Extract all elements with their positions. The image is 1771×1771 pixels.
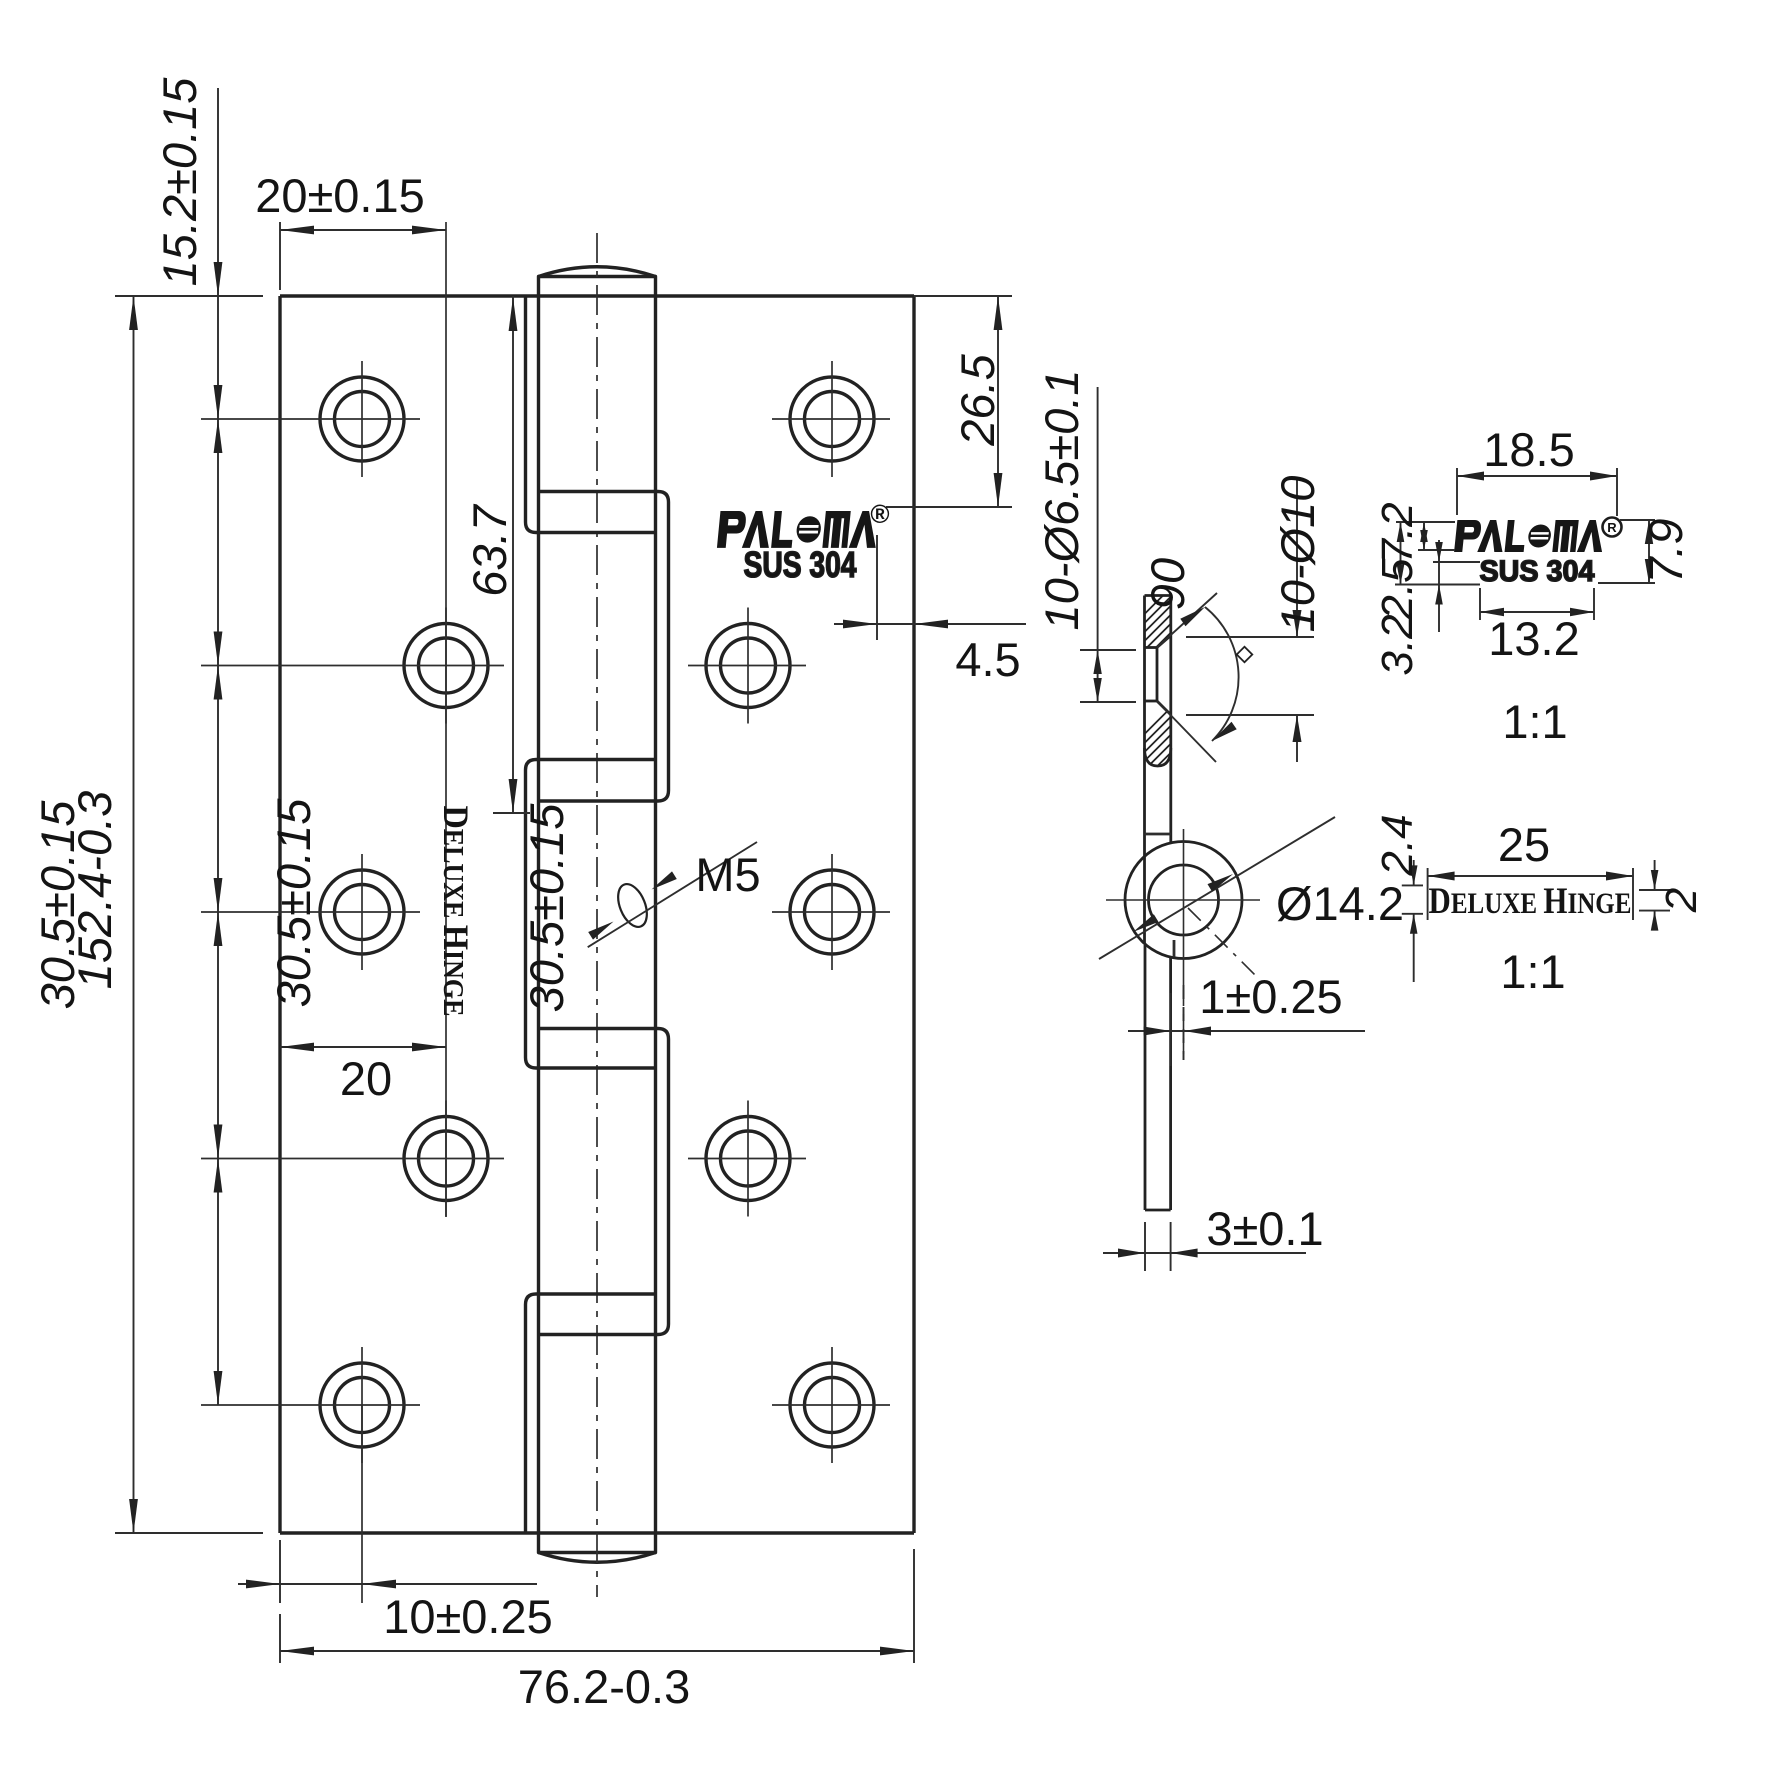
detail1 dimension 18.5 bbox=[1457, 468, 1617, 516]
knuckle crosshair bbox=[1106, 829, 1260, 1060]
degree diamond bbox=[1237, 647, 1253, 663]
svg-text:10-Ø6.5±0.1: 10-Ø6.5±0.1 bbox=[1035, 370, 1088, 631]
label 10-Ø6.5±0.1 bbox=[1035, 370, 1088, 631]
PALOMA SUS 304 stamp front bbox=[717, 499, 890, 585]
hinge plate outline front view bbox=[280, 296, 914, 1533]
detail2 label 1:1 bbox=[1500, 945, 1565, 998]
side strip top cap bbox=[1145, 594, 1171, 597]
hatch zone 2 bbox=[1109, 700, 1296, 770]
dimension 63.7 bbox=[493, 296, 530, 813]
pin left edge bbox=[537, 296, 540, 1533]
svg-text:DELUXE HINGE: DELUXE HINGE bbox=[1429, 881, 1632, 922]
screw hole H10 with crosshair bbox=[772, 1347, 890, 1463]
hatch zone 1 bbox=[1109, 594, 1282, 650]
M5 oil hole callout bbox=[588, 842, 757, 947]
DELUXE HINGE stamp front bbox=[436, 806, 476, 1017]
knuckle sleeve 2 outline bbox=[526, 1029, 669, 1335]
svg-text:10-Ø10: 10-Ø10 bbox=[1271, 476, 1324, 633]
svg-text:10±0.25: 10±0.25 bbox=[383, 1590, 553, 1643]
label 10±0.25 bbox=[383, 1590, 553, 1643]
screw hole H9 with crosshair bbox=[688, 1101, 806, 1217]
svg-text:15.2±0.15: 15.2±0.15 bbox=[153, 77, 206, 287]
label 1±0.25 bbox=[1199, 970, 1342, 1023]
detail1 PALOMA stamp bbox=[1454, 518, 1621, 589]
svg-text:30.5±0.15: 30.5±0.15 bbox=[267, 798, 320, 1008]
svg-text:3±0.1: 3±0.1 bbox=[1206, 1202, 1323, 1255]
detail2 dimension 2.4 bbox=[1402, 860, 1423, 982]
screw hole H3 with crosshair bbox=[201, 854, 420, 970]
dimension 20±0.15 top bbox=[280, 222, 446, 290]
label M5 bbox=[695, 848, 760, 901]
dimension chain 15.2/30.5 line bbox=[214, 88, 223, 1405]
svg-text:M5: M5 bbox=[695, 848, 760, 901]
svg-text:18.5: 18.5 bbox=[1483, 423, 1574, 476]
svg-text:SUS 304: SUS 304 bbox=[744, 544, 857, 585]
label 152.4-0.3 far left bbox=[68, 791, 121, 990]
svg-text:®: ® bbox=[870, 499, 889, 529]
label 63.7 bbox=[463, 503, 516, 596]
detail1 label 7.9 bbox=[1639, 518, 1692, 583]
pin cap bottom with dome bbox=[539, 1533, 656, 1562]
side lower strip bbox=[1145, 945, 1171, 1210]
screw hole H1 with crosshair bbox=[201, 361, 420, 477]
svg-text:2.5: 2.5 bbox=[1373, 558, 1422, 621]
svg-text:90: 90 bbox=[1141, 558, 1194, 610]
svg-text:26.5: 26.5 bbox=[951, 353, 1004, 446]
side strip right edge upper bbox=[1169, 596, 1172, 844]
dimension 76.2-0.3 bbox=[280, 1549, 914, 1663]
dimension 10-O10 bbox=[1186, 480, 1314, 762]
svg-text:13.2: 13.2 bbox=[1488, 612, 1579, 665]
curl gap line bbox=[1173, 940, 1176, 957]
screw hole H7 with crosshair bbox=[688, 608, 806, 724]
svg-text:SUS 304: SUS 304 bbox=[1480, 555, 1595, 588]
detail1 label 3.2 bbox=[1373, 614, 1422, 675]
svg-text:3.2: 3.2 bbox=[1373, 614, 1422, 675]
svg-text:7.9: 7.9 bbox=[1639, 518, 1692, 583]
detail1 dims 3.2/2.5/7.2 bbox=[1395, 522, 1480, 632]
label 3±0.1 bbox=[1206, 1202, 1323, 1255]
chamfer extension lower bbox=[1157, 701, 1216, 762]
left leaf inner edge top bbox=[524, 296, 527, 522]
detail2 DELUXE HINGE stamp bbox=[1429, 881, 1632, 922]
label 30.5±0.15 far left bbox=[31, 800, 84, 1010]
label 15.2±0.15 bbox=[153, 77, 206, 287]
screw hole H8 with crosshair bbox=[772, 854, 890, 970]
svg-text:1:1: 1:1 bbox=[1500, 945, 1565, 998]
label Ø14.2 bbox=[1276, 877, 1404, 930]
dimension 10-O6.5 bbox=[1080, 387, 1136, 702]
dimension 1±0.25 bbox=[1128, 985, 1365, 1066]
dimension 26.5 bbox=[886, 296, 1012, 507]
plate top extension left bbox=[115, 295, 263, 297]
detail1 label 2.5 bbox=[1373, 558, 1422, 621]
detail1 label 13.2 bbox=[1488, 612, 1579, 665]
knuckle outer circle bbox=[1125, 842, 1242, 959]
svg-text:63.7: 63.7 bbox=[463, 503, 516, 596]
chamfer extension upper bbox=[1157, 593, 1217, 648]
detail2 label 2 bbox=[1657, 888, 1706, 913]
dimension 3±0.1 bbox=[1103, 1222, 1306, 1271]
left leaf inner edge middle bbox=[524, 770, 527, 1058]
screw hole H2 with crosshair bbox=[201, 608, 504, 724]
dimension 152.4 overall line bbox=[129, 296, 138, 1533]
knuckle sleeve 1 outline bbox=[526, 492, 669, 802]
knuckle inner circle bbox=[1149, 865, 1219, 935]
svg-text:20: 20 bbox=[340, 1052, 392, 1105]
screw hole H5 with crosshair bbox=[201, 1347, 420, 1463]
detail2 label 2.4 bbox=[1373, 814, 1422, 876]
countersunk hole section bbox=[1145, 636, 1171, 715]
detail1 dimension 13.2 bbox=[1480, 588, 1594, 620]
detail2 dimension 2 bbox=[1639, 860, 1670, 931]
svg-text:2.4: 2.4 bbox=[1373, 814, 1422, 876]
plate bottom extension left bbox=[115, 1532, 263, 1534]
dimension 10±0.25 bbox=[238, 1540, 537, 1603]
section plane dash bbox=[1188, 908, 1255, 975]
svg-text:76.2-0.3: 76.2-0.3 bbox=[518, 1660, 690, 1713]
pin right edge bbox=[654, 296, 657, 1533]
svg-text:2: 2 bbox=[1657, 888, 1706, 913]
pin cap top with dome bbox=[539, 267, 656, 296]
svg-text:R: R bbox=[1607, 520, 1617, 535]
dimension 20 middle bbox=[280, 1043, 446, 1052]
detail1 dimension 7.9 bbox=[1598, 520, 1655, 583]
O14.2 leader bbox=[1099, 817, 1335, 959]
label 76.2-0.3 bbox=[518, 1660, 690, 1713]
label 20 bbox=[340, 1052, 392, 1105]
svg-text:1:1: 1:1 bbox=[1502, 695, 1567, 748]
label 26.5 bbox=[951, 353, 1004, 446]
detail2 dimension 25 bbox=[1428, 868, 1633, 920]
label 30.5±0.15 chain bbox=[267, 798, 320, 1008]
dimension 4.5 bbox=[834, 535, 1026, 640]
svg-text:Ø14.2: Ø14.2 bbox=[1276, 877, 1404, 930]
svg-text:7.2: 7.2 bbox=[1373, 502, 1422, 563]
svg-text:1±0.25: 1±0.25 bbox=[1199, 970, 1342, 1023]
hole column A row5 extension bbox=[361, 1405, 363, 1603]
label 4.5 bbox=[955, 633, 1020, 686]
svg-text:152.4-0.3: 152.4-0.3 bbox=[68, 791, 121, 990]
left leaf inner edge bottom bbox=[524, 1305, 527, 1534]
hole column B connector line bbox=[445, 222, 447, 1217]
svg-text:4.5: 4.5 bbox=[955, 633, 1020, 686]
svg-text:20±0.15: 20±0.15 bbox=[255, 169, 425, 222]
detail1 label 7.2 bbox=[1373, 502, 1422, 563]
side strip tick bbox=[1145, 833, 1171, 836]
side strip left edge bbox=[1143, 596, 1146, 944]
label 10-Ø10 bbox=[1271, 476, 1324, 633]
detail1 label 18.5 bbox=[1483, 423, 1574, 476]
detail2 label 25 bbox=[1498, 818, 1550, 871]
label 90 bbox=[1141, 558, 1194, 610]
screw hole H4 with crosshair bbox=[201, 1101, 504, 1217]
svg-text:30.5±0.15: 30.5±0.15 bbox=[520, 803, 573, 1013]
barrel centerline dash-dot bbox=[596, 233, 598, 1597]
screw hole H6 with crosshair bbox=[772, 361, 890, 477]
label 30.5±0.15 on barrel bbox=[520, 803, 573, 1013]
label 20±0.15 bbox=[255, 169, 425, 222]
svg-text:25: 25 bbox=[1498, 818, 1550, 871]
90 degree angle arc bbox=[1180, 607, 1238, 741]
detail1 label 1:1 bbox=[1502, 695, 1567, 748]
